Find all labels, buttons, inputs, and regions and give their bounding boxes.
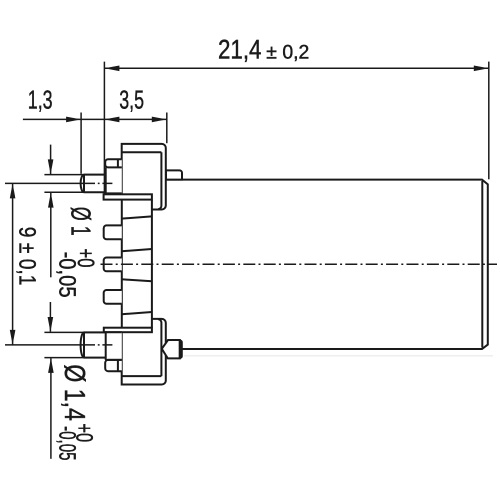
centrelines — [85, 183, 497, 345]
top cap (flange nut, upper silhouette) — [122, 144, 166, 210]
bottom plate (insulator face tab, lower) — [104, 328, 152, 333]
svg-text:1,3: 1,3 — [28, 85, 53, 115]
arrow dia1,4 down — [48, 317, 54, 332]
middle bump 1 (contact 2 stub) — [104, 225, 122, 239]
bottom cap (flange nut, lower silhouette) — [122, 319, 166, 385]
pin edge extension lines bottom pin — [44, 332, 106, 357]
arrow dia1 up — [48, 193, 54, 208]
insulator strip (front flange plate) — [122, 200, 152, 328]
dim 9 extension line upper (pin centre) — [5, 182, 83, 184]
arrow 9 down — [10, 330, 16, 345]
top plate (insulator face tab, upper) — [104, 194, 152, 199]
arrow 9 up — [10, 183, 16, 198]
dia 1,4 leader lower — [50, 358, 52, 459]
svg-text:3,5: 3,5 — [119, 84, 144, 114]
bottom pin bump — [105, 360, 122, 371]
middle bump 3 (contact 4 stub) — [104, 290, 122, 304]
dimension texts — [15, 35, 310, 461]
dim 3,5 extension line — [166, 113, 168, 144]
top stud (polarization lug) — [166, 170, 182, 179]
svg-text:21,4: 21,4 — [218, 35, 262, 65]
arrow dia1 down — [48, 159, 54, 174]
connector body (cylinder, side view) — [165, 180, 488, 349]
dia 1 leader upper — [50, 145, 52, 175]
svg-text:9 ± 0,1: 9 ± 0,1 — [15, 227, 41, 286]
bottom pin (solder contact, lower, dia 1.4) — [81, 332, 107, 357]
dim 1,3 extension line — [80, 113, 82, 174]
strip divider 3 — [122, 279, 152, 281]
arrow 1,3 right-pointing — [66, 117, 81, 123]
svg-text:Ø 1,4: Ø 1,4 — [58, 364, 90, 421]
dim 21,4 extension line right — [488, 62, 490, 180]
bottom stud (solder terminal lug) — [162, 340, 182, 358]
main axis centreline — [101, 263, 498, 265]
dim 1,3 and 3,5 line — [23, 118, 167, 120]
top pin bump — [105, 159, 122, 167]
dim 21,4 extension line left — [103, 62, 105, 195]
dim 21,4 line — [104, 67, 488, 69]
dia 1,4 leader upper — [49, 302, 51, 332]
middle bump 2 (contact 3 stub) — [104, 258, 122, 272]
pin edge extension lines top pin — [44, 175, 106, 193]
dim 9 extension line lower (pin centre) — [5, 344, 83, 346]
dimension graphics — [5, 62, 489, 459]
bottom pin collar — [106, 332, 122, 360]
svg-text:-0,05: -0,05 — [54, 252, 80, 298]
top pin (solder contact, upper) — [81, 175, 107, 193]
bottom pin centreline — [85, 344, 114, 346]
svg-text:Ø 1: Ø 1 — [65, 207, 96, 236]
top pin collar — [106, 167, 122, 193]
svg-text:± 0,2: ± 0,2 — [266, 41, 309, 63]
arrowheads — [10, 66, 489, 373]
dim 9 line — [12, 183, 14, 345]
arrow 21,4 right — [474, 66, 489, 72]
strip divider 1 — [122, 216, 152, 218]
arrow 3,5 left-pointing — [104, 117, 119, 123]
dia 1 leader lower — [50, 193, 52, 277]
strip divider 4 — [122, 312, 152, 314]
arrow 3,5 right-pointing — [152, 117, 167, 123]
svg-text:-0,05: -0,05 — [54, 426, 80, 461]
top pin centreline — [85, 182, 114, 184]
arrow 21,4 left — [104, 66, 119, 72]
arrow dia1,4 up — [48, 358, 54, 373]
strip divider 2 — [122, 249, 152, 251]
ghost artifact line under body — [184, 355, 493, 357]
